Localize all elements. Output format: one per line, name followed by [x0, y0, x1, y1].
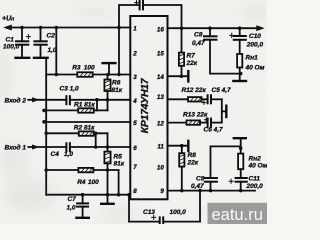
- capacitor C3: [66, 96, 70, 104]
- svg-text:6: 6: [133, 145, 137, 152]
- svg-text:40 Ом: 40 Ом: [248, 163, 268, 170]
- node bus R1 row: [42, 109, 46, 113]
- svg-text:1: 1: [133, 26, 137, 33]
- wire R2 staple left: [95, 133, 97, 147]
- wire pin11 row: [168, 145, 188, 147]
- svg-text:R4: R4: [77, 179, 86, 186]
- svg-text:R13 22к: R13 22к: [183, 112, 208, 119]
- resistor Rn2 chain: [238, 138, 243, 178]
- wire R1 row: [46, 109, 107, 111]
- svg-text:C6 4,7: C6 4,7: [204, 127, 224, 134]
- resistor Rn1: [237, 54, 242, 81]
- svg-text:16: 16: [157, 26, 164, 33]
- node junctions input1 row: [94, 145, 109, 149]
- svg-text:R6: R6: [112, 79, 121, 86]
- wire R4 row riser to pin8 row: [118, 170, 120, 195]
- resistor R3: [77, 72, 92, 77]
- svg-text:КР174УН17: КР174УН17: [139, 77, 151, 133]
- svg-text:0,47: 0,47: [192, 40, 205, 47]
- svg-text:200,0: 200,0: [246, 41, 264, 48]
- svg-text:200,0: 200,0: [246, 183, 264, 190]
- terminal input 2 arrow: [28, 98, 39, 102]
- capacitor C8: [204, 28, 240, 73]
- svg-text:14: 14: [157, 74, 164, 81]
- svg-text:15: 15: [157, 51, 164, 58]
- ground bar center: [101, 203, 113, 205]
- terminal +Un arrow: [4, 25, 12, 30]
- wire input2 row to pin 4: [38, 99, 66, 101]
- wire R2 row: [46, 132, 107, 134]
- svg-text:100,0: 100,0: [170, 209, 187, 216]
- wire R3 row (pin 3): [46, 74, 130, 76]
- svg-text:C11: C11: [249, 176, 261, 183]
- svg-text:13: 13: [157, 94, 164, 101]
- svg-text:C8: C8: [194, 32, 203, 39]
- wire pin16 rail: [168, 27, 258, 29]
- resistor R4: [78, 168, 93, 172]
- svg-text:C2: C2: [47, 33, 56, 40]
- ground under C1: [16, 57, 30, 59]
- svg-text:R3: R3: [72, 64, 81, 71]
- svg-text:+Uп: +Uп: [2, 16, 14, 23]
- svg-text:1,0: 1,0: [64, 151, 73, 158]
- resistor R13: [187, 120, 208, 124]
- IC U1 box: [130, 16, 167, 199]
- ground right pin14: [187, 71, 189, 81]
- capacitor C7: [77, 195, 88, 218]
- capacitor C4: [66, 143, 70, 151]
- wire input1 row to pin 6: [38, 146, 66, 148]
- svg-text:12: 12: [157, 121, 164, 128]
- svg-text:22к: 22к: [187, 160, 199, 167]
- watermark box: [208, 203, 268, 224]
- ground above Rn2: [234, 137, 246, 139]
- ground under C7: [76, 217, 88, 219]
- ground under C2: [34, 57, 48, 59]
- svg-text:R5: R5: [114, 154, 123, 161]
- wire RC merge vertical: [221, 99, 223, 122]
- resistor R2: [79, 131, 94, 135]
- wire ground bus left: [45, 58, 47, 195]
- wire rail cross down to R3 row: [118, 28, 120, 75]
- capacitor C10: [230, 28, 246, 54]
- svg-text:Rн2: Rн2: [249, 156, 262, 163]
- capacitor C6: [204, 118, 221, 127]
- ground right pin11: [187, 141, 189, 151]
- capacitor C5: [135, 1, 144, 10]
- capacitor C1: [16, 28, 30, 58]
- svg-text:Rн1: Rн1: [246, 55, 259, 62]
- svg-text:9: 9: [160, 188, 164, 195]
- wire pin13 row: [168, 98, 189, 100]
- resistor R5: [104, 147, 110, 170]
- svg-text:R8: R8: [188, 152, 197, 159]
- wire R6 to R1 row: [107, 100, 109, 111]
- ground under Rn1: [233, 80, 246, 82]
- svg-text:C13: C13: [143, 209, 155, 216]
- resistor R6: [104, 75, 110, 100]
- svg-text:100: 100: [88, 179, 99, 186]
- svg-text:C9: C9: [196, 176, 205, 183]
- svg-text:R1 81к: R1 81к: [74, 102, 95, 109]
- svg-text:C4: C4: [51, 151, 60, 158]
- svg-text:1,0: 1,0: [48, 47, 57, 54]
- wire R4 row: [46, 169, 118, 171]
- capacitor C13 loop: [129, 191, 200, 224]
- wire ground row to pin 8: [46, 194, 130, 196]
- svg-text:1,0: 1,0: [67, 205, 76, 212]
- resistor R8: [179, 146, 184, 191]
- svg-text:C5 4,7: C5 4,7: [212, 87, 232, 94]
- wire rail to R3 row at x62: [55, 28, 57, 75]
- svg-text:3: 3: [133, 74, 137, 81]
- capacitor C2: [34, 28, 46, 58]
- wire pin14 row: [168, 75, 188, 77]
- wire pin5 row: [46, 121, 130, 123]
- svg-text:7: 7: [133, 164, 137, 171]
- svg-text:2: 2: [132, 51, 137, 58]
- capacitor C5e: [202, 95, 222, 104]
- resistor R1: [78, 108, 94, 112]
- svg-text:81к: 81к: [114, 161, 125, 168]
- capacitor C9: [205, 146, 241, 190]
- scan blotches: [0, 2, 272, 223]
- wire top loop via C5: [119, 5, 182, 28]
- wire center ground drop: [107, 170, 109, 204]
- svg-text:100: 100: [84, 64, 95, 71]
- wire R1 staple left: [96, 100, 98, 111]
- node rail junctions: [20, 26, 121, 30]
- svg-text:22к: 22к: [186, 60, 198, 67]
- terminal input 1 arrow: [28, 145, 39, 149]
- svg-text:10: 10: [157, 164, 164, 171]
- resistor R7: [179, 28, 184, 76]
- svg-text:C3 1,0: C3 1,0: [60, 86, 80, 93]
- svg-text:4: 4: [132, 98, 137, 105]
- svg-text:5: 5: [133, 120, 137, 127]
- svg-text:C1: C1: [6, 37, 15, 44]
- svg-text:8: 8: [133, 188, 137, 195]
- capacitor C11: [229, 178, 247, 191]
- terminal output arrow right: [257, 26, 264, 31]
- ground right RC: [225, 106, 227, 117]
- node junctions input2 row: [95, 98, 109, 102]
- svg-text:11: 11: [157, 144, 164, 151]
- svg-text:R2 81к: R2 81к: [74, 125, 95, 132]
- node junctions R3 row: [55, 73, 121, 77]
- wire pin9 row: [168, 190, 256, 192]
- resistor R12: [188, 97, 207, 101]
- svg-text:R7: R7: [187, 53, 196, 60]
- svg-text:0,47: 0,47: [191, 183, 204, 190]
- svg-text:eatu.ru: eatu.ru: [212, 206, 263, 224]
- svg-text:40 Ом: 40 Ом: [245, 65, 265, 72]
- ground up bar at pin3 row: [103, 63, 116, 74]
- wire R2 staple right to R5: [107, 133, 109, 147]
- svg-text:C7: C7: [68, 196, 77, 203]
- svg-text:R12 22к: R12 22к: [182, 87, 207, 94]
- wire power rail: [10, 27, 130, 29]
- svg-text:81к: 81к: [112, 87, 123, 94]
- wire pin12 row: [168, 122, 187, 124]
- svg-text:C10: C10: [249, 33, 261, 40]
